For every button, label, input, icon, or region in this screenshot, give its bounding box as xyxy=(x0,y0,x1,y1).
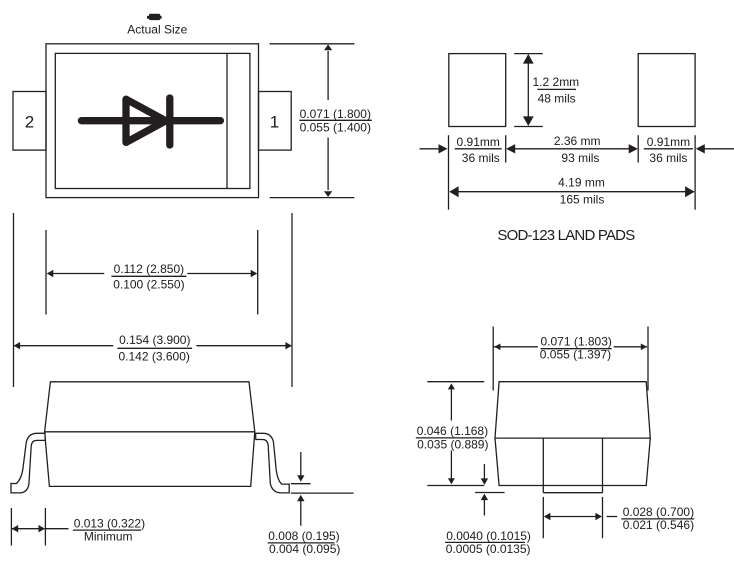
svg-text:0.013 (0.322): 0.013 (0.322) xyxy=(74,516,145,530)
svg-text:4.19 mm: 4.19 mm xyxy=(558,175,605,189)
side view parting line xyxy=(45,431,255,433)
svg-text:0.055 (1.397): 0.055 (1.397) xyxy=(540,348,611,362)
side view body xyxy=(45,382,255,487)
top view inner body outline xyxy=(55,53,250,188)
dimension 0.071/0.055 arrows xyxy=(327,51,329,100)
min lead dim arrow xyxy=(12,528,45,530)
svg-text:36 mils: 36 mils xyxy=(649,151,687,165)
right outside arrow xyxy=(703,148,734,150)
min lead dim leader xyxy=(45,528,68,530)
dimension 0.071/0.055 ticks xyxy=(270,43,355,45)
svg-text:0.91mm: 0.91mm xyxy=(457,135,500,149)
svg-text:93 mils: 93 mils xyxy=(561,151,599,165)
svg-text:Actual Size: Actual Size xyxy=(127,23,187,37)
tab width dim extension lines xyxy=(542,497,544,538)
svg-text:0.035 (0.889): 0.035 (0.889) xyxy=(417,437,488,451)
pad height dim ticks xyxy=(514,53,543,55)
diode symbol cathode bar xyxy=(166,98,173,145)
svg-text:165 mils: 165 mils xyxy=(560,192,605,206)
height dim ticks xyxy=(427,381,484,383)
svg-text:0.071 (1.800): 0.071 (1.800) xyxy=(300,107,371,121)
gap dim arrow 2.36mm xyxy=(507,148,637,150)
svg-text:0.055 (1.400): 0.055 (1.400) xyxy=(300,121,371,135)
svg-text:1.2 2mm: 1.2 2mm xyxy=(533,75,580,89)
svg-text:Minimum: Minimum xyxy=(84,530,133,544)
svg-text:0.046 (1.168): 0.046 (1.168) xyxy=(417,424,488,438)
svg-text:0.154 (3.900): 0.154 (3.900) xyxy=(119,333,190,347)
svg-text:2: 2 xyxy=(25,113,34,132)
svg-text:0.021 (0.546): 0.021 (0.546) xyxy=(623,518,694,532)
diode symbol triangle xyxy=(126,99,166,142)
svg-text:0.100 (2.550): 0.100 (2.550) xyxy=(113,278,184,292)
svg-text:36 mils: 36 mils xyxy=(462,151,500,165)
inner extension lines xyxy=(45,230,47,315)
left outside arrow xyxy=(420,148,442,150)
land pad right xyxy=(638,54,695,127)
diode symbol lead wire xyxy=(81,117,220,124)
svg-text:0.0040 (0.1015): 0.0040 (0.1015) xyxy=(446,529,531,543)
svg-text:SOD-123 LAND PADS: SOD-123 LAND PADS xyxy=(497,227,635,244)
width dim arrows 0.071 xyxy=(493,346,538,348)
outer extension lines xyxy=(13,213,15,387)
svg-text:1: 1 xyxy=(270,113,279,132)
pad extension lines xyxy=(448,135,450,210)
min lead dim extension lines xyxy=(10,508,12,546)
tab width dim arrow 0.028 xyxy=(545,516,601,518)
cathode band line xyxy=(226,53,228,188)
height dim arrows 0.046 xyxy=(450,388,452,421)
svg-text:48 mils: 48 mils xyxy=(538,92,576,106)
pin 1 tab xyxy=(259,92,292,151)
seating plane line xyxy=(291,492,354,494)
standoff dim arrows xyxy=(300,452,302,475)
dim 0.154/0.142 arrows xyxy=(14,345,113,347)
svg-text:2.36 mm: 2.36 mm xyxy=(554,134,601,148)
svg-text:0.028 (0.700): 0.028 (0.700) xyxy=(623,505,694,519)
left gull-wing lead xyxy=(11,433,45,493)
standoff dim tick xyxy=(475,492,505,494)
right gull-wing lead xyxy=(256,433,290,493)
actual-size package glyph xyxy=(147,14,162,20)
svg-text:0.0005 (0.0135): 0.0005 (0.0135) xyxy=(446,542,531,556)
svg-text:0.071 (1.803): 0.071 (1.803) xyxy=(541,334,612,348)
svg-text:0.008 (0.195): 0.008 (0.195) xyxy=(268,529,339,543)
width dim extension lines xyxy=(492,327,494,391)
land pad left xyxy=(449,54,506,127)
pin 2 tab xyxy=(13,92,46,151)
end view terminal tab xyxy=(542,438,544,493)
top view outer body outline xyxy=(46,44,259,198)
svg-text:0.004 (0.095): 0.004 (0.095) xyxy=(269,542,340,556)
foot top tick xyxy=(291,483,311,485)
dim 0.112/0.100 arrows xyxy=(48,273,105,275)
standoff dim arrows 0.0040 xyxy=(483,464,485,479)
tab width dim leader xyxy=(607,516,618,518)
end view parting line xyxy=(495,437,650,439)
svg-text:0.142 (3.600): 0.142 (3.600) xyxy=(119,349,190,363)
end view body xyxy=(495,382,650,486)
overall dim arrow 4.19mm xyxy=(450,191,694,193)
svg-text:0.91mm: 0.91mm xyxy=(647,135,690,149)
pad height dim arrow xyxy=(527,61,529,119)
svg-text:0.112 (2.850): 0.112 (2.850) xyxy=(114,262,185,276)
